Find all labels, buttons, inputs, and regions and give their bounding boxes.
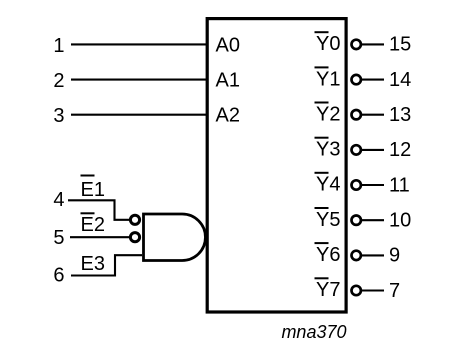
svg-text:4: 4 (53, 189, 64, 211)
overbar Y0 (315, 31, 329, 33)
inverter bubble output Y6 (352, 251, 361, 260)
overbar Y3 (315, 137, 329, 139)
overbar Y6 (315, 242, 329, 244)
overbar Y2 (315, 102, 329, 104)
inverter bubble output Y1 (352, 75, 361, 84)
wire Y5 to pin 10 (362, 219, 384, 221)
svg-text:Y2: Y2 (316, 103, 340, 125)
wire Y0 to pin 15 (362, 43, 384, 45)
svg-text:Y4: Y4 (316, 174, 340, 196)
svg-text:2: 2 (53, 70, 64, 92)
svg-text:1: 1 (53, 35, 64, 57)
wire pin2 to A1 (71, 79, 207, 81)
wire Y6 to pin 9 (362, 254, 384, 256)
inverter bubble output Y2 (352, 110, 361, 119)
svg-text:E1: E1 (81, 179, 105, 201)
IC block U1 (decoder body) (207, 19, 346, 312)
overbar Y5 (315, 207, 329, 209)
wire pin1 to A0 (71, 43, 207, 45)
svg-text:5: 5 (53, 227, 64, 249)
svg-text:14: 14 (389, 69, 411, 91)
svg-text:A1: A1 (216, 70, 240, 92)
svg-text:12: 12 (389, 139, 411, 161)
svg-text:6: 6 (53, 265, 64, 287)
svg-text:3: 3 (53, 105, 64, 127)
wire pin6 to gate input 3 (71, 255, 142, 275)
svg-text:13: 13 (389, 104, 411, 126)
wire Y3 to pin 12 (362, 149, 384, 151)
overbar Y7 (315, 277, 329, 279)
inverter bubble gate input 2 (130, 233, 139, 242)
svg-text:Y7: Y7 (316, 279, 340, 301)
svg-text:A2: A2 (216, 105, 240, 127)
inverter bubble gate input 1 (130, 215, 139, 224)
svg-text:11: 11 (389, 174, 410, 196)
svg-text:Y0: Y0 (316, 33, 340, 55)
inverter bubble output Y4 (352, 180, 361, 189)
wire Y1 to pin 14 (362, 79, 384, 81)
overbar Y4 (315, 172, 329, 174)
wire Y7 to pin 7 (362, 289, 384, 291)
svg-text:Y1: Y1 (316, 68, 340, 90)
inverter bubble output Y7 (352, 286, 361, 295)
svg-text:Y6: Y6 (316, 244, 340, 266)
svg-text:7: 7 (389, 280, 400, 302)
overbar E1 (81, 175, 95, 177)
inverter bubble output Y5 (352, 216, 361, 225)
wire pin4 to gate input 1 (68, 200, 129, 220)
wire pin5 to gate input 2 (70, 236, 129, 238)
svg-text:15: 15 (389, 34, 411, 56)
inverter bubble output Y0 (352, 40, 361, 49)
svg-text:Y5: Y5 (316, 209, 340, 231)
AND gate G1 (enable gate) (144, 214, 206, 261)
svg-text:10: 10 (389, 210, 411, 232)
svg-text:E2: E2 (81, 214, 105, 236)
inverter bubble output Y3 (352, 145, 361, 154)
svg-text:9: 9 (389, 245, 400, 267)
svg-text:Y3: Y3 (316, 139, 340, 161)
overbar E2 (81, 212, 95, 214)
overbar Y1 (315, 66, 329, 68)
svg-text:mna370: mna370 (281, 322, 346, 342)
wire pin3 to A2 (71, 114, 207, 116)
svg-text:E3: E3 (81, 253, 105, 275)
wire Y2 to pin 13 (362, 114, 384, 116)
wire Y4 to pin 11 (362, 184, 384, 186)
svg-text:A0: A0 (216, 34, 240, 56)
